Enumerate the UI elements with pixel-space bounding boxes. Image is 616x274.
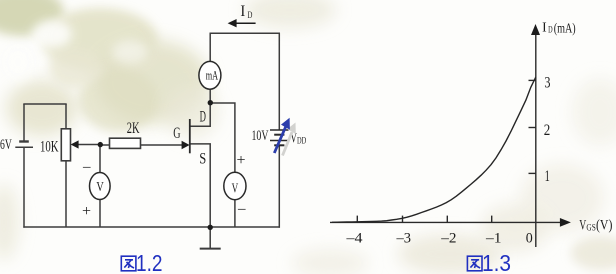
svg-text:G: G (173, 125, 180, 142)
svg-text:(V): (V) (596, 218, 613, 234)
svg-text:(mA): (mA) (554, 21, 576, 36)
wire: JFET source lead (190, 144, 210, 227)
svg-text:1: 1 (545, 168, 550, 185)
svg-text:–2: –2 (440, 231, 456, 247)
VDD shadow arrow (283, 123, 296, 156)
milliammeter mA (199, 61, 221, 89)
potentiometer R1 wiper arrow (71, 140, 79, 148)
wire: milliammeter to top rail (209, 33, 211, 61)
graph: transfer curve (332, 77, 536, 222)
potentiometer R1 10K body (61, 129, 70, 161)
svg-text:1.2: 1.2 (136, 250, 163, 274)
svg-text:2: 2 (544, 122, 551, 139)
svg-text:DD: DD (297, 135, 307, 145)
voltmeter V1 (90, 173, 111, 200)
wire: battery V1 top vertical (23, 104, 25, 141)
svg-text:–: – (82, 159, 91, 175)
svg-text:3: 3 (544, 74, 550, 91)
JFET Q1 gate arrow (182, 141, 190, 149)
graph: y tick 3 (529, 79, 537, 81)
svg-text:–3: –3 (396, 231, 411, 247)
graph: x axis arrowhead (560, 218, 571, 227)
svg-text:V: V (96, 180, 103, 195)
svg-text:mA: mA (206, 67, 219, 82)
wire: right rail upper (to VDD battery) (278, 33, 280, 130)
caption 图1.3 (467, 250, 511, 274)
wire: bottom rail horizontal (23, 226, 280, 228)
VDD adjust arrow (blue) (274, 118, 290, 153)
graph: y axis arrowhead (531, 24, 540, 35)
resistor R2 2K body (110, 138, 141, 148)
ground (200, 248, 221, 250)
wire: battery V1 bottom vertical (23, 147, 25, 228)
svg-text:–: – (237, 201, 246, 217)
wire: voltmeter V2 to bottom rail (234, 200, 236, 228)
wire: ground stub (209, 227, 211, 248)
wire: wiper to node A (77, 144, 100, 146)
wire: JFET drain lead (190, 103, 210, 127)
bottom junction dot (208, 225, 213, 230)
graph: x tick -2 (446, 216, 448, 223)
svg-text:10K: 10K (40, 139, 59, 156)
graph: x tick -4 (356, 216, 358, 223)
svg-text:0: 0 (526, 231, 533, 247)
svg-text:10V: 10V (252, 128, 269, 144)
wire: drain node to milliammeter (209, 89, 211, 102)
graph: x axis VGS (330, 32, 562, 247)
graph: y tick 1 (529, 172, 537, 174)
svg-text:–1: –1 (485, 231, 502, 247)
svg-text:6V: 6V (0, 137, 12, 153)
svg-text:2K: 2K (127, 120, 140, 137)
svg-text:I: I (240, 3, 245, 20)
wire: drain node to voltmeter V2 branch (210, 103, 235, 173)
node A junction dot (98, 142, 103, 147)
svg-text:D: D (200, 109, 206, 126)
wire: node A to voltmeter V1 (99, 145, 101, 173)
drain node junction dot (208, 100, 213, 105)
wire: resistor R2 to gate arrow (141, 144, 185, 146)
svg-text:D: D (548, 26, 553, 36)
svg-text:V: V (232, 181, 239, 196)
graph: y tick 2 (529, 127, 537, 129)
caption 图1.2 (121, 250, 162, 274)
svg-text:I: I (542, 20, 547, 35)
svg-text:GS: GS (586, 223, 595, 233)
wire: potentiometer top lead (65, 104, 67, 129)
current arrow ID (228, 19, 256, 27)
voltmeter V2 (224, 172, 246, 199)
svg-text:–4: –4 (345, 231, 363, 247)
wire: top-left horizontal (23, 103, 66, 105)
wire: node A to resistor R2 (100, 144, 110, 146)
svg-text:+: + (82, 203, 91, 220)
svg-text:+: + (237, 152, 246, 169)
wire: top rail horizontal (210, 32, 281, 34)
svg-text:S: S (199, 151, 206, 168)
battery VDD plates (270, 130, 289, 145)
graph: x tick -1 (491, 216, 493, 223)
graph: y axis ID (535, 32, 537, 247)
wire: voltmeter V1 to bottom rail (99, 199, 101, 227)
battery V1 6V (15, 142, 33, 148)
JFET Q1 channel bar (189, 119, 191, 153)
graph: x tick -3 (402, 216, 404, 223)
svg-text:1.3: 1.3 (482, 250, 511, 274)
wire: potentiometer bottom lead (65, 161, 67, 228)
wire: right rail lower (VDD to bottom rail) (278, 145, 280, 227)
svg-text:D: D (248, 11, 253, 21)
